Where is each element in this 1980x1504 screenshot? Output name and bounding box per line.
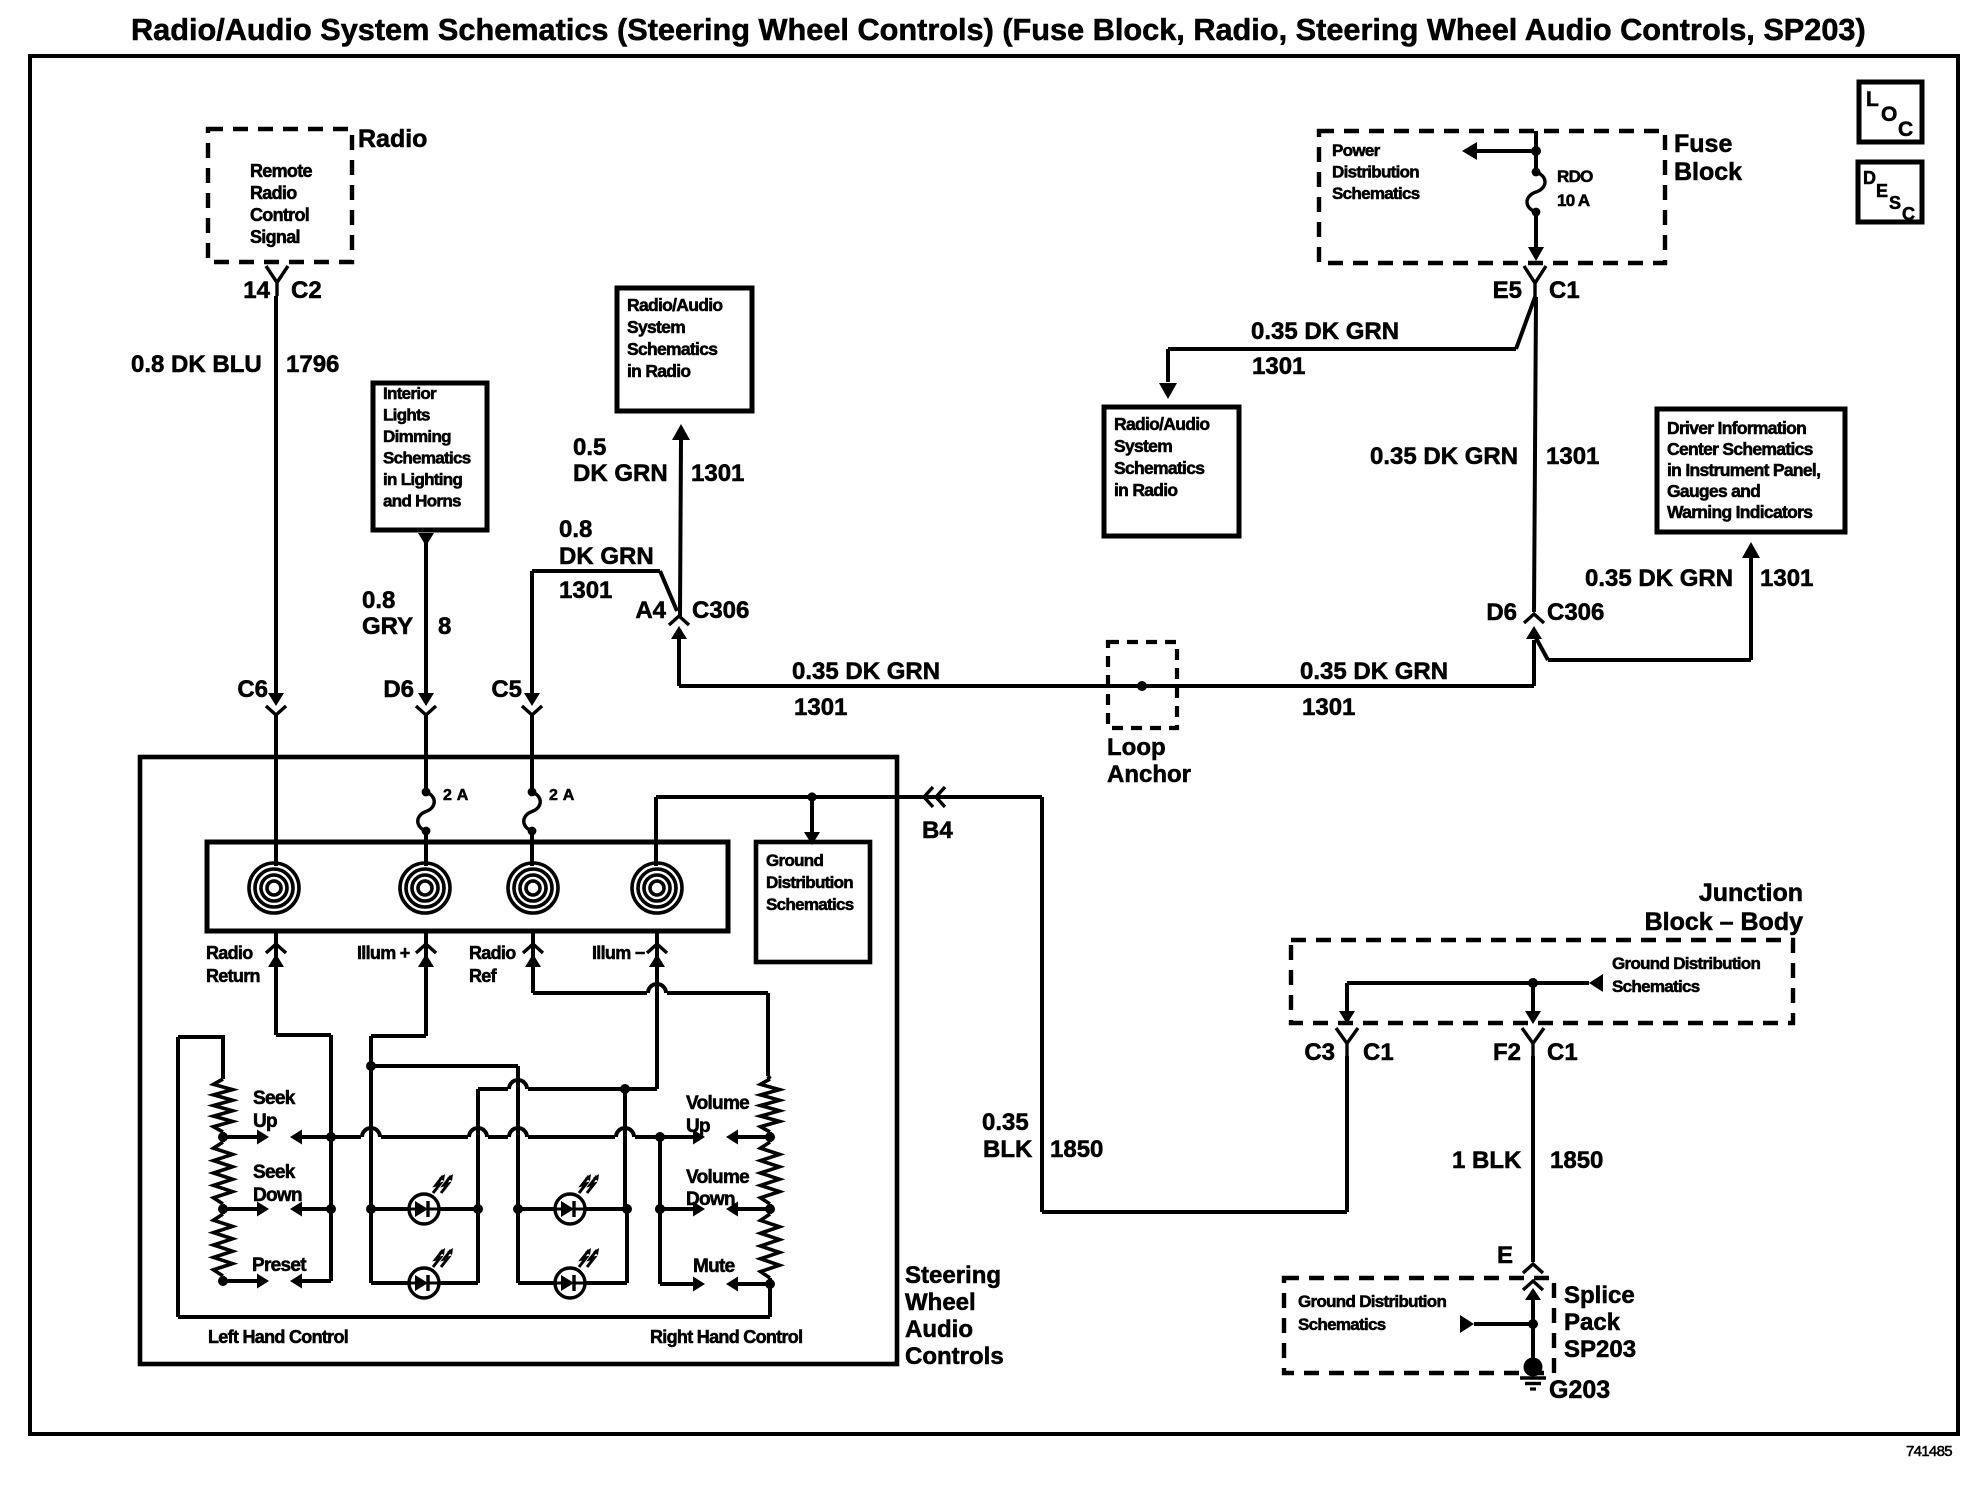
svg-text:Controls: Controls — [905, 1343, 1004, 1370]
svg-text:Distribution: Distribution — [766, 873, 853, 892]
wire illum- to led rail 2 — [625, 931, 657, 1089]
wire power feed with arrow — [1462, 131, 1541, 172]
svg-text:Schematics: Schematics — [1332, 184, 1420, 203]
wire radio ref to right chain — [533, 931, 768, 1076]
wire fuse to illum+ coil — [424, 831, 428, 866]
LED preset indicator 1 — [409, 1248, 453, 1298]
svg-text:14: 14 — [243, 277, 270, 304]
svg-text:C1: C1 — [1363, 1039, 1394, 1066]
wire 0.35 DK GRN 1301 left segment — [679, 658, 1534, 721]
svg-text:0.8 DK BLU: 0.8 DK BLU — [131, 351, 262, 378]
svg-text:0.35 DK GRN: 0.35 DK GRN — [1300, 658, 1448, 685]
wire C5 to fuse — [530, 715, 534, 792]
right switch bus — [655, 1137, 665, 1284]
svg-text:in Radio: in Radio — [1114, 480, 1177, 500]
svg-text:Mute: Mute — [693, 1256, 735, 1277]
svg-text:Schematics: Schematics — [627, 339, 718, 359]
svg-text:Warning Indicators: Warning Indicators — [1667, 502, 1813, 522]
svg-text:Audio: Audio — [905, 1316, 973, 1343]
ground distribution schematics box (steering) — [756, 842, 870, 962]
volume down switch — [655, 1167, 770, 1217]
wire C6 to radio return coil — [274, 715, 278, 866]
connector C1 pin E5 — [1493, 266, 1580, 304]
svg-text:Distribution: Distribution — [1332, 163, 1419, 182]
svg-text:GRY: GRY — [362, 613, 413, 640]
svg-text:Interior: Interior — [383, 384, 437, 403]
led rail illum+ top — [366, 1061, 518, 1209]
wire fuse to connector — [1528, 212, 1544, 261]
connector E splice pack — [1497, 1242, 1543, 1300]
wire 0.35 DK GRN 1301 branch to radio — [1159, 297, 1535, 399]
volume up switch — [664, 1093, 770, 1145]
svg-text:1301: 1301 — [1760, 565, 1813, 592]
svg-text:1 BLK: 1 BLK — [1452, 1147, 1522, 1174]
svg-text:1301: 1301 — [1302, 694, 1355, 721]
wire radio return to switch bus — [276, 931, 331, 1281]
svg-text:10 A: 10 A — [1557, 191, 1590, 210]
radio audio system schematics in radio box (top) — [617, 288, 752, 411]
svg-text:Illum +: Illum + — [357, 943, 410, 963]
LED seek indicator 1 — [409, 1174, 453, 1224]
coil connector illum- — [632, 863, 682, 913]
svg-text:Up: Up — [686, 1116, 710, 1137]
wire D6 branch to driver information center — [1536, 542, 1813, 660]
svg-text:Illum −: Illum − — [592, 943, 645, 963]
wire label 0.8 GRY 8 — [362, 587, 451, 640]
connector C1 pin C3 — [1304, 1028, 1393, 1066]
connector B4 — [922, 787, 953, 844]
svg-text:DK GRN: DK GRN — [573, 460, 668, 487]
connector C6 — [237, 676, 286, 715]
left switch bus — [326, 1132, 336, 1214]
svg-text:C306: C306 — [692, 597, 749, 624]
svg-text:Down: Down — [686, 1189, 735, 1210]
svg-text:C3: C3 — [1304, 1039, 1335, 1066]
svg-text:Driver Information: Driver Information — [1667, 418, 1806, 438]
LOC reference stamp — [1859, 82, 1922, 142]
svg-text:Control: Control — [250, 205, 309, 225]
svg-text:1850: 1850 — [1550, 1147, 1603, 1174]
svg-text:RDO: RDO — [1557, 167, 1593, 186]
svg-text:Lights: Lights — [383, 406, 430, 425]
svg-text:Radio/Audio: Radio/Audio — [627, 295, 722, 315]
svg-text:0.8: 0.8 — [559, 516, 592, 543]
wire 0.5 DK GRN 1301 with arrow — [573, 424, 744, 616]
radio audio system schematics in radio box (right) — [1104, 407, 1239, 536]
svg-text:8: 8 — [438, 613, 451, 640]
svg-text:Signal: Signal — [250, 227, 300, 247]
wire 0.35 DK GRN 1301 main vertical — [1370, 297, 1599, 612]
svg-text:BLK: BLK — [983, 1136, 1033, 1163]
terminal illum+ — [357, 931, 436, 967]
wire 0.35 DK GRN 1301 right segment label — [1300, 658, 1448, 721]
svg-text:C306: C306 — [1547, 599, 1604, 626]
steering wheel audio controls box — [140, 757, 1004, 1370]
svg-text:Volume: Volume — [686, 1167, 749, 1188]
svg-text:C6: C6 — [237, 676, 268, 703]
svg-text:in Lighting: in Lighting — [383, 470, 462, 489]
wire D6 to fuse — [424, 715, 428, 792]
svg-text:F2: F2 — [1493, 1039, 1521, 1066]
svg-text:Schematics: Schematics — [1612, 977, 1700, 996]
resistor right chain — [761, 1076, 780, 1317]
svg-text:Preset: Preset — [252, 1255, 307, 1276]
terminal radio ref — [469, 931, 543, 986]
svg-text:in Radio: in Radio — [627, 361, 690, 381]
led row2 right pair — [518, 1209, 627, 1283]
connector C1 pin F2 — [1493, 1028, 1578, 1066]
svg-text:Fuse: Fuse — [1674, 130, 1732, 158]
wire 1 BLK 1850 — [1452, 1056, 1603, 1262]
mute switch — [660, 1256, 770, 1292]
svg-text:1796: 1796 — [286, 351, 339, 378]
svg-text:B4: B4 — [922, 817, 953, 844]
svg-text:SP203: SP203 — [1564, 1336, 1636, 1363]
seek down switch — [218, 1162, 331, 1217]
wire illum+ to led rail — [371, 931, 426, 1066]
svg-text:0.5: 0.5 — [573, 434, 606, 461]
svg-text:1850: 1850 — [1050, 1136, 1103, 1163]
svg-text:Schematics: Schematics — [1114, 458, 1205, 478]
svg-text:Radio: Radio — [250, 183, 297, 203]
wire label 0.35 BLK 1850 — [982, 1109, 1103, 1163]
svg-text:Power: Power — [1332, 141, 1381, 160]
svg-text:System: System — [1114, 436, 1172, 456]
svg-text:Loop: Loop — [1107, 734, 1166, 761]
remote radio control signal label — [250, 161, 313, 247]
led row2 left pair — [371, 1209, 478, 1283]
svg-text:Block: Block — [1674, 158, 1742, 186]
svg-text:0.35 DK GRN: 0.35 DK GRN — [1585, 565, 1733, 592]
svg-text:L: L — [1866, 88, 1879, 111]
svg-text:Return: Return — [206, 966, 260, 986]
wire B4 to illum- coil — [656, 792, 924, 866]
svg-text:G203: G203 — [1549, 1376, 1610, 1404]
svg-text:D6: D6 — [383, 676, 414, 703]
svg-text:Schematics: Schematics — [766, 895, 854, 914]
fuse 2A right — [524, 787, 575, 835]
terminal radio return — [206, 931, 286, 986]
svg-text:0.35 DK GRN: 0.35 DK GRN — [1370, 443, 1518, 470]
svg-text:1301: 1301 — [559, 577, 612, 604]
svg-text:1301: 1301 — [691, 460, 744, 487]
svg-text:1301: 1301 — [1252, 353, 1305, 380]
svg-text:C2: C2 — [291, 277, 322, 304]
left hand control label — [208, 1327, 348, 1347]
svg-text:2 A: 2 A — [443, 787, 469, 804]
svg-text:Block – Body: Block – Body — [1645, 908, 1803, 936]
terminal illum- — [592, 931, 667, 967]
svg-text:Remote: Remote — [250, 161, 313, 181]
svg-text:Splice: Splice — [1564, 1282, 1635, 1309]
right hand control label — [650, 1327, 802, 1347]
svg-text:Schematics: Schematics — [1298, 1315, 1386, 1334]
svg-text:Dimming: Dimming — [383, 427, 451, 446]
svg-text:Steering: Steering — [905, 1262, 1001, 1289]
svg-text:1301: 1301 — [794, 694, 847, 721]
svg-text:Left Hand Control: Left Hand Control — [208, 1327, 348, 1347]
connector C5 — [491, 676, 542, 715]
svg-text:1301: 1301 — [1546, 443, 1599, 470]
svg-text:741485: 741485 — [1906, 1443, 1952, 1460]
svg-text:C1: C1 — [1547, 1039, 1578, 1066]
svg-text:Gauges and: Gauges and — [1667, 481, 1760, 501]
coil connector radio ref — [508, 863, 558, 913]
svg-text:Ground: Ground — [766, 851, 823, 870]
splice pack dashed box — [1284, 1278, 1636, 1373]
svg-text:2 A: 2 A — [549, 787, 575, 804]
svg-text:0.35 DK GRN: 0.35 DK GRN — [1251, 318, 1399, 345]
seek up switch — [218, 1088, 331, 1145]
wire from interior lights box — [418, 533, 434, 693]
svg-text:Center Schematics: Center Schematics — [1667, 439, 1814, 459]
svg-text:Right Hand Control: Right Hand Control — [650, 1327, 802, 1347]
svg-text:Radio: Radio — [469, 943, 516, 963]
svg-text:Pack: Pack — [1564, 1309, 1621, 1336]
svg-text:and Horns: and Horns — [383, 492, 461, 511]
svg-text:E5: E5 — [1493, 277, 1522, 304]
svg-text:0.35 DK GRN: 0.35 DK GRN — [792, 658, 940, 685]
svg-text:E: E — [1497, 1242, 1513, 1269]
svg-text:Ground Distribution: Ground Distribution — [1612, 954, 1760, 973]
svg-text:DK GRN: DK GRN — [559, 543, 654, 570]
svg-text:O: O — [1881, 103, 1897, 126]
LED seek indicator 2 — [555, 1174, 599, 1224]
splice pack internal — [1298, 1292, 1538, 1360]
connector row box — [207, 842, 728, 931]
svg-text:C: C — [1898, 118, 1913, 141]
svg-text:Seek: Seek — [253, 1088, 296, 1109]
left control frame — [178, 1037, 770, 1317]
svg-text:Seek: Seek — [253, 1162, 296, 1183]
svg-text:D: D — [1863, 168, 1876, 188]
wire B4 to junction block — [920, 797, 1347, 1212]
svg-text:S: S — [1889, 193, 1901, 213]
coil connector radio return — [249, 863, 299, 913]
svg-text:A4: A4 — [635, 597, 666, 624]
connector C306 pin D6 — [1486, 599, 1604, 639]
loop anchor — [1107, 642, 1191, 788]
svg-text:Radio/Audio System Schematics: Radio/Audio System Schematics (Steering … — [131, 12, 1866, 47]
wire fuse to radio ref coil — [530, 831, 534, 866]
svg-text:Radio: Radio — [358, 125, 427, 153]
connector C306 pin A4 — [635, 597, 749, 639]
preset switch — [218, 1255, 331, 1289]
fuse block dashed box — [1319, 130, 1742, 263]
svg-text:Ref: Ref — [469, 966, 498, 986]
wire A4 to horizontal rail — [677, 636, 681, 686]
connector C2 pin 14 — [243, 266, 321, 304]
wire 0.8 DK GRN 1301 rail — [532, 516, 677, 693]
junction block body label — [1645, 879, 1803, 936]
coil connector illum+ — [400, 863, 450, 913]
resistor left chain — [214, 1079, 233, 1281]
svg-text:0.8: 0.8 — [362, 587, 395, 614]
led rail illum- top — [478, 1080, 630, 1209]
DESC reference stamp — [1858, 162, 1922, 224]
svg-text:Ground Distribution: Ground Distribution — [1298, 1292, 1446, 1311]
svg-text:System: System — [627, 317, 685, 337]
interior lights dimming schematics box — [373, 383, 487, 530]
led row1 left pair — [366, 1204, 483, 1214]
svg-text:Volume: Volume — [686, 1093, 749, 1114]
ground G203 — [1520, 1358, 1610, 1405]
svg-text:C: C — [1902, 204, 1915, 224]
LED preset indicator 2 — [555, 1248, 599, 1298]
led row1 right pair — [513, 1204, 632, 1214]
svg-text:Radio: Radio — [206, 943, 253, 963]
svg-text:C1: C1 — [1549, 277, 1580, 304]
wire rail up to D6 connector — [1532, 640, 1536, 686]
svg-text:D6: D6 — [1486, 599, 1517, 626]
svg-text:Schematics: Schematics — [383, 449, 471, 468]
junction block dashed box — [1291, 940, 1793, 1023]
led left rail — [369, 1066, 373, 1283]
svg-text:0.35: 0.35 — [982, 1109, 1029, 1136]
svg-text:Down: Down — [253, 1185, 302, 1206]
wire 0.8 DK BLU 1796 — [131, 296, 339, 693]
junction block internal wires — [1339, 954, 1760, 1024]
fuse 2A left — [418, 787, 469, 835]
connector D6 — [383, 676, 436, 715]
radio component dashed box — [208, 125, 427, 262]
svg-text:Radio/Audio: Radio/Audio — [1114, 414, 1209, 434]
svg-text:Up: Up — [253, 1111, 277, 1132]
svg-text:E: E — [1876, 181, 1888, 201]
fuse RDO 10A — [1527, 167, 1593, 216]
svg-text:Wheel: Wheel — [905, 1289, 976, 1316]
svg-text:Anchor: Anchor — [1107, 761, 1191, 788]
wire common row — [331, 1128, 665, 1142]
driver information center schematics box — [1657, 409, 1845, 532]
power distribution schematics label — [1332, 141, 1420, 203]
svg-text:in Instrument Panel,: in Instrument Panel, — [1667, 460, 1820, 480]
svg-text:Junction: Junction — [1699, 879, 1803, 907]
svg-text:C5: C5 — [491, 676, 522, 703]
